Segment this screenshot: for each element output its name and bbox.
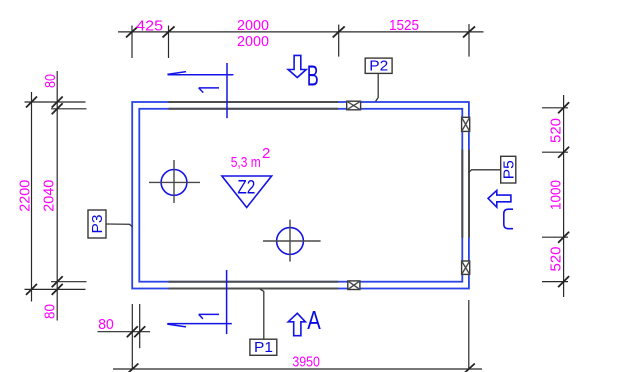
dim text 80 bottom bbox=[98, 316, 114, 333]
dim text 1525 bbox=[389, 17, 419, 34]
luminaire symbol right bbox=[263, 220, 321, 262]
dim text 80 bottom-left bbox=[42, 304, 59, 319]
svg-text:2000: 2000 bbox=[237, 17, 269, 34]
label box P5 bbox=[469, 156, 518, 183]
left extension lines bbox=[25, 102, 87, 289]
arrow C (left) bbox=[488, 190, 513, 228]
arrow B (down) bbox=[288, 55, 319, 92]
junction box right wall upper bbox=[462, 117, 470, 131]
svg-text:B: B bbox=[307, 60, 319, 92]
svg-text:P1: P1 bbox=[254, 339, 273, 356]
svg-text:80: 80 bbox=[98, 316, 114, 333]
arrow A (up) bbox=[288, 306, 321, 336]
dim text 520 lower bbox=[548, 247, 565, 272]
dimension line left 2200 bbox=[26, 92, 37, 302]
dimension 80 bottom-left wall thickness bbox=[98, 304, 151, 369]
dim text 425 bbox=[136, 18, 163, 35]
dim text 520 upper bbox=[548, 118, 565, 143]
label box P2 bbox=[365, 57, 392, 101]
dim text 3950 bbox=[292, 353, 320, 370]
dim text 2000 lower bbox=[237, 33, 269, 50]
dim text 2000 upper bbox=[237, 17, 269, 34]
dim text 2200 bbox=[17, 180, 34, 212]
svg-text:2200: 2200 bbox=[17, 180, 34, 212]
section marker 1 top bbox=[167, 63, 233, 118]
zone triangle Z2 bbox=[222, 176, 272, 208]
svg-text:Z2: Z2 bbox=[237, 177, 255, 198]
label box P3 bbox=[88, 210, 133, 238]
dimension line right 520/1000/520 bbox=[542, 95, 569, 297]
dim text 1000 bbox=[548, 180, 565, 210]
svg-text:5,3 m: 5,3 m bbox=[231, 154, 261, 171]
dim text 2040 bbox=[40, 180, 57, 212]
svg-text:2040: 2040 bbox=[40, 180, 57, 212]
svg-text:1525: 1525 bbox=[389, 17, 419, 34]
svg-text:P3: P3 bbox=[89, 215, 106, 234]
label box P1 bbox=[250, 289, 277, 356]
svg-text:P2: P2 bbox=[369, 57, 388, 74]
svg-text:425: 425 bbox=[136, 18, 163, 35]
svg-text:520: 520 bbox=[548, 118, 565, 143]
svg-text:A: A bbox=[307, 306, 321, 335]
svg-text:80: 80 bbox=[42, 304, 59, 319]
junction box bottom wall bbox=[348, 281, 360, 290]
wire right wall existing segment (dark) bbox=[462, 150, 469, 238]
wall outer rectangle (blue) bbox=[132, 102, 469, 289]
svg-text:80: 80 bbox=[42, 74, 59, 88]
svg-text:P5: P5 bbox=[500, 160, 517, 179]
svg-text:2: 2 bbox=[262, 145, 270, 162]
luminaire symbol left bbox=[149, 160, 200, 203]
junction box top wall bbox=[347, 101, 361, 110]
dimension line bottom 3950 bbox=[113, 300, 482, 372]
dimension line top chain bbox=[118, 24, 484, 58]
svg-text:2000: 2000 bbox=[237, 33, 269, 50]
dim text 80 top-left bbox=[42, 74, 59, 88]
section marker 1 bottom bbox=[167, 270, 232, 334]
svg-text:3950: 3950 bbox=[292, 353, 320, 370]
junction box right wall lower bbox=[462, 261, 470, 274]
svg-text:520: 520 bbox=[548, 247, 565, 272]
svg-text:1000: 1000 bbox=[548, 180, 565, 210]
area text 5,3 m2 bbox=[231, 145, 271, 171]
wire bottom wall existing segment (dark) bbox=[169, 282, 339, 289]
wire top wall existing segment (dark) bbox=[169, 102, 339, 109]
dimension line left 80/2040/80 bbox=[52, 71, 63, 321]
wall inner rectangle (blue) bbox=[139, 109, 462, 282]
